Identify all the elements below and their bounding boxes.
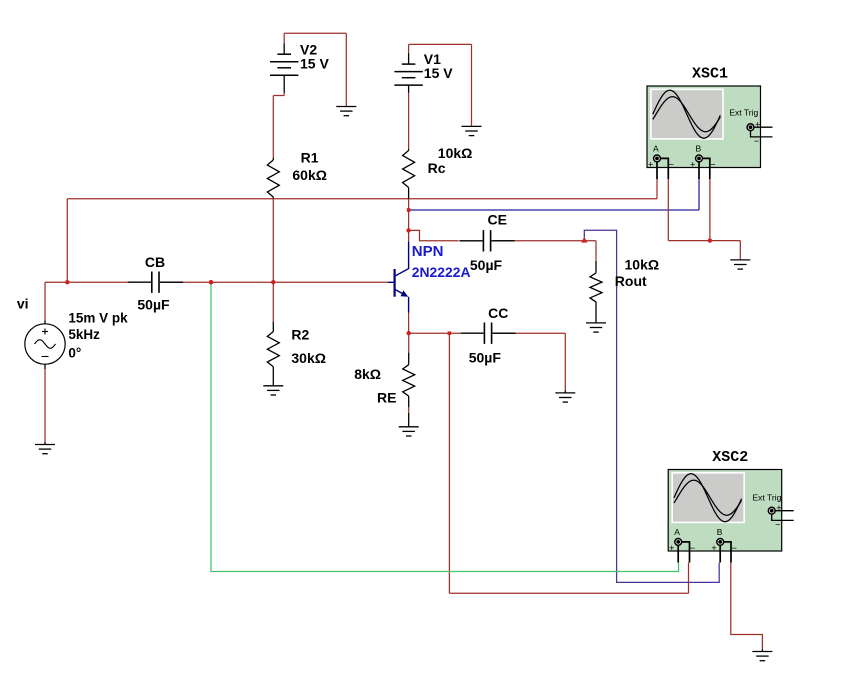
svg-text:−: − bbox=[732, 543, 737, 553]
svg-text:50µF: 50µF bbox=[470, 257, 503, 273]
svg-text:A: A bbox=[674, 527, 680, 537]
svg-text:−: − bbox=[690, 543, 695, 553]
svg-text:+: + bbox=[711, 543, 716, 553]
svg-text:Rout: Rout bbox=[615, 273, 647, 289]
svg-text:+: + bbox=[648, 159, 653, 169]
svg-text:+: + bbox=[690, 159, 695, 169]
svg-text:vi: vi bbox=[17, 296, 29, 312]
svg-text:B: B bbox=[696, 143, 702, 153]
svg-text:−: − bbox=[710, 159, 715, 169]
svg-text:8kΩ: 8kΩ bbox=[354, 366, 381, 382]
svg-text:RE: RE bbox=[377, 390, 396, 406]
svg-text:NPN: NPN bbox=[412, 243, 444, 260]
svg-text:CC: CC bbox=[488, 305, 508, 321]
svg-text:A: A bbox=[653, 143, 659, 153]
svg-text:50µF: 50µF bbox=[469, 349, 502, 365]
svg-text:R2: R2 bbox=[291, 327, 309, 343]
svg-text:+: + bbox=[776, 503, 781, 513]
svg-text:60kΩ: 60kΩ bbox=[292, 167, 327, 183]
svg-text:Ext Trig: Ext Trig bbox=[753, 493, 782, 503]
svg-text:R1: R1 bbox=[301, 150, 319, 166]
svg-text:Ext Trig: Ext Trig bbox=[729, 108, 758, 118]
svg-text:XSC1: XSC1 bbox=[692, 66, 728, 83]
svg-text:XSC2: XSC2 bbox=[712, 449, 748, 466]
svg-text:+: + bbox=[669, 543, 674, 553]
svg-text:−: − bbox=[775, 520, 780, 530]
svg-text:B: B bbox=[717, 527, 723, 537]
svg-text:15 V: 15 V bbox=[424, 65, 453, 81]
svg-text:CE: CE bbox=[488, 212, 507, 228]
svg-text:0°: 0° bbox=[68, 346, 81, 361]
svg-text:5kHz: 5kHz bbox=[68, 327, 100, 342]
svg-text:+: + bbox=[755, 119, 760, 129]
svg-text:CB: CB bbox=[145, 254, 165, 270]
svg-text:10kΩ: 10kΩ bbox=[625, 257, 660, 273]
svg-text:50µF: 50µF bbox=[137, 296, 170, 312]
svg-text:2N2222A: 2N2222A bbox=[412, 264, 471, 280]
svg-text:−: − bbox=[669, 159, 674, 169]
svg-text:10kΩ: 10kΩ bbox=[438, 145, 473, 161]
svg-text:15m V pk: 15m V pk bbox=[68, 310, 128, 325]
svg-text:−: − bbox=[754, 136, 759, 146]
svg-text:Rc: Rc bbox=[428, 160, 446, 176]
svg-text:15 V: 15 V bbox=[300, 56, 329, 72]
svg-text:30kΩ: 30kΩ bbox=[291, 350, 326, 366]
